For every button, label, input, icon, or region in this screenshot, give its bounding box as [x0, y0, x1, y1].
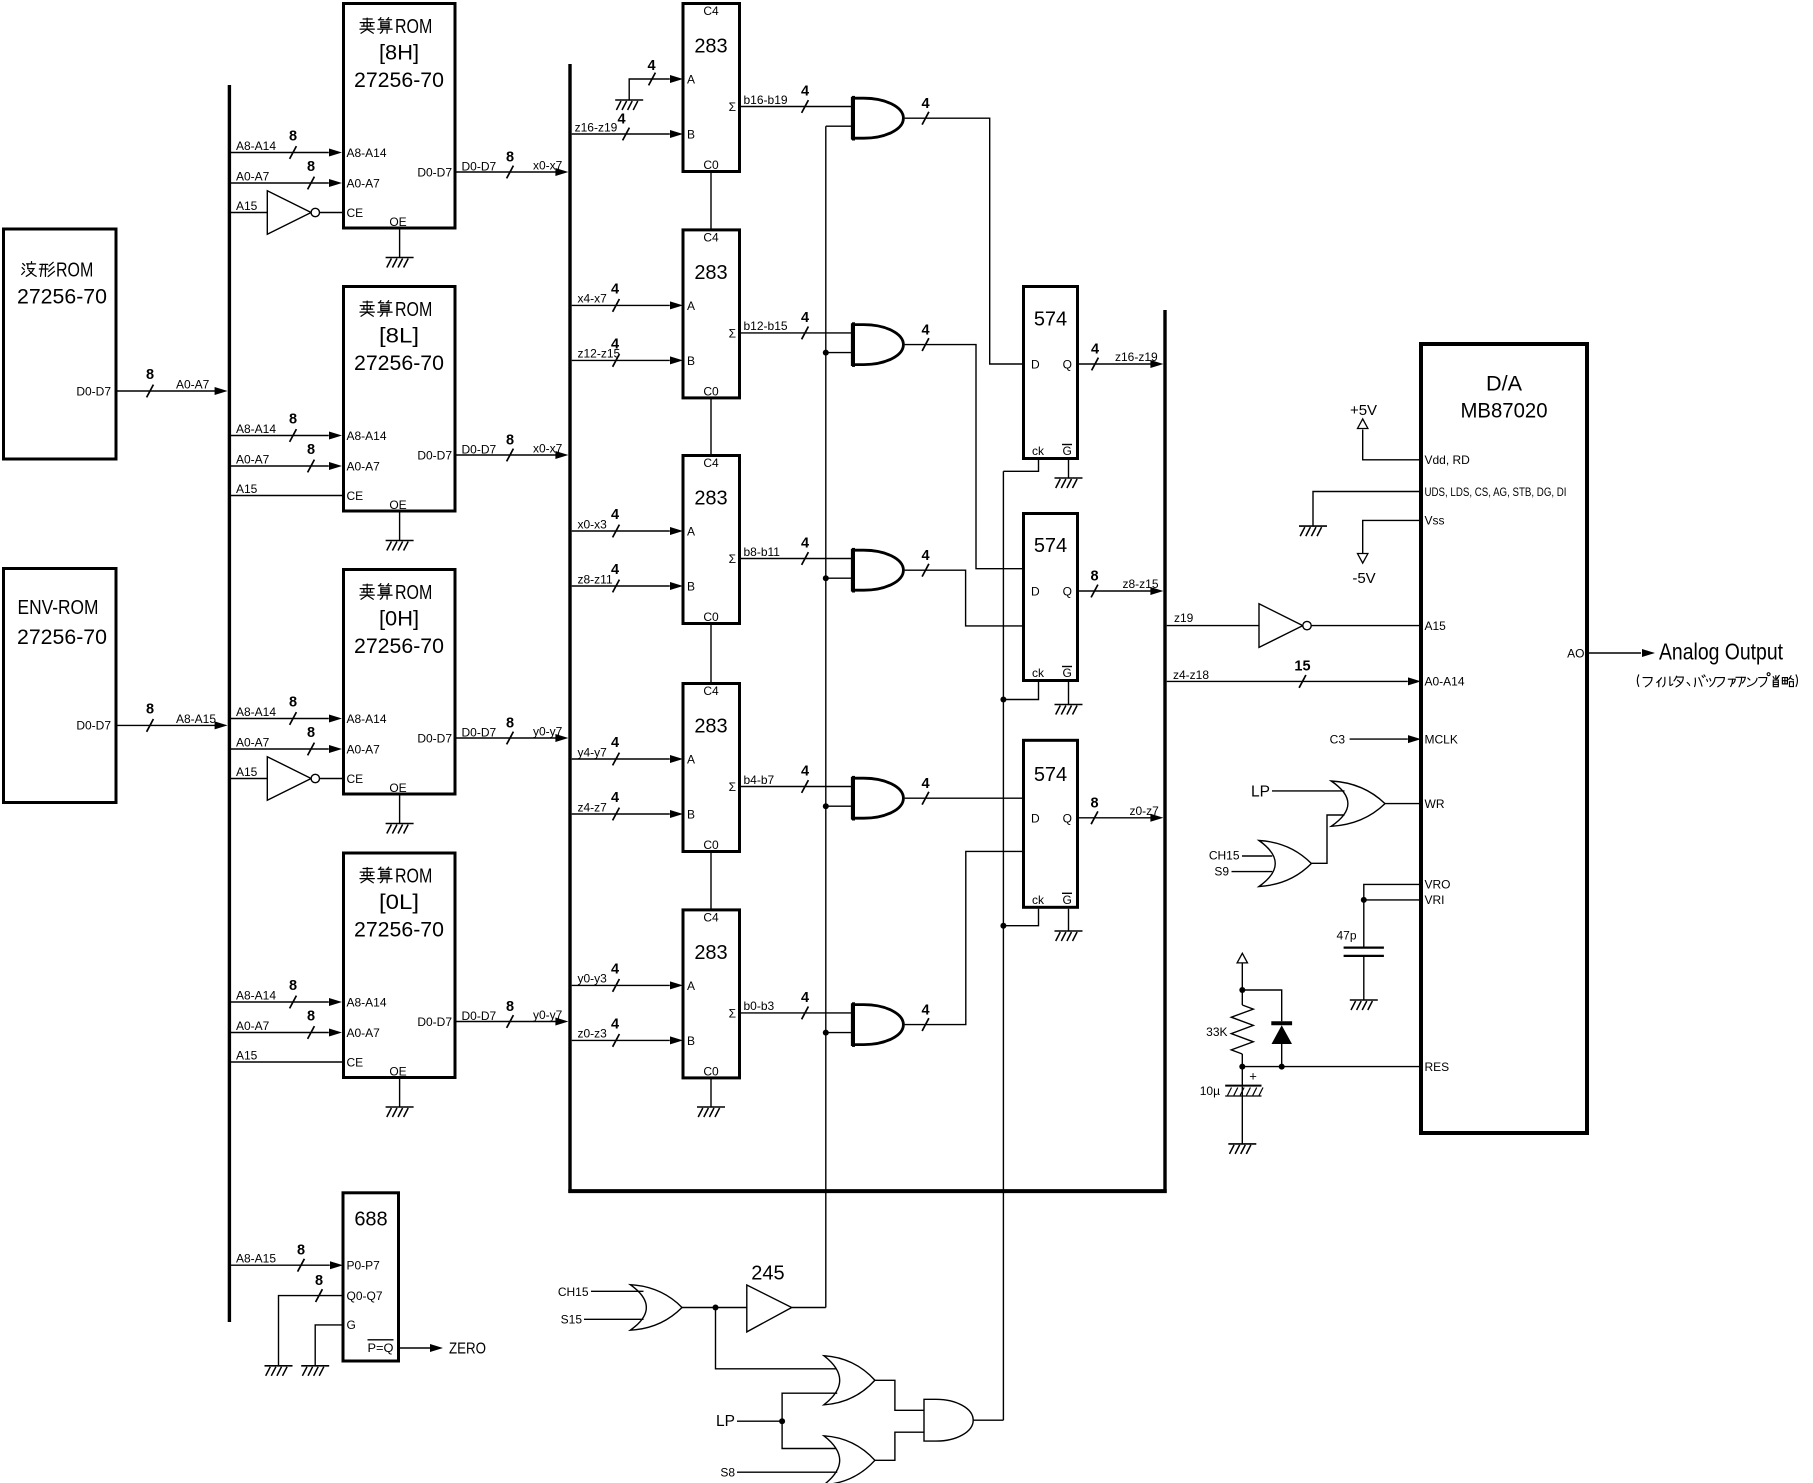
svg-text:8: 8: [307, 725, 315, 741]
resistor R1 33K: [1241, 990, 1243, 1005]
svg-text:4: 4: [801, 84, 809, 100]
svg-text:8: 8: [307, 1009, 315, 1025]
svg-text:z4-z18: z4-z18: [1173, 668, 1209, 682]
wire A8-A15 from bus B1 to U32 P0-P7: [231, 1264, 330, 1266]
ROM U5 multiplier ROM [0H] 27256-70 box: [344, 570, 456, 795]
svg-text:C4: C4: [703, 4, 719, 18]
svg-text:8: 8: [506, 716, 514, 732]
svg-text:A8-A14: A8-A14: [236, 989, 276, 1003]
svg-text:D0-D7: D0-D7: [462, 726, 497, 740]
svg-text:27256-70: 27256-70: [354, 352, 444, 375]
svg-text:283: 283: [694, 716, 727, 738]
D/A converter U30 MB87020 box: [1421, 344, 1587, 1133]
ground at U3 OE: [386, 258, 414, 268]
svg-text:D: D: [1031, 585, 1040, 599]
wire carry C0 of U12 to C4 of U13: [710, 398, 712, 455]
svg-text:B: B: [687, 354, 695, 368]
ground at U32 G: [301, 1366, 329, 1376]
wire supply to R1/D1 node: [1241, 963, 1243, 990]
svg-text:MB87020: MB87020: [1461, 400, 1548, 423]
svg-text:S9: S9: [1214, 864, 1229, 878]
inverter on A15 to U3 CE: [267, 191, 319, 235]
ground at U4 OE: [386, 541, 414, 551]
svg-text:y0-y7: y0-y7: [533, 1008, 563, 1022]
OR gate G10: [824, 1356, 875, 1405]
junction on gating line at G5: [823, 1030, 829, 1036]
wire inverter output to CE: [320, 212, 344, 214]
svg-text:A8-A14: A8-A14: [347, 995, 387, 1009]
svg-text:D0-D7: D0-D7: [76, 719, 111, 733]
junction VRO/VRI node: [1361, 897, 1367, 903]
wire S8 to G11 lower input: [737, 1471, 837, 1473]
wire U21 Q output to bus B3 (net z16-z19): [1077, 363, 1158, 365]
wire G7 output to U30 WR: [1385, 803, 1421, 805]
wire U3 D0-D7 to bus B2 (net x0-x7): [455, 171, 563, 173]
svg-text:8: 8: [289, 412, 297, 428]
svg-text:Vdd, RD: Vdd, RD: [1425, 453, 1471, 467]
svg-text:27256-70: 27256-70: [354, 635, 444, 658]
wire node to capacitor C2: [1363, 900, 1365, 947]
svg-text:4: 4: [611, 961, 619, 977]
svg-text:z4-z7: z4-z7: [578, 800, 608, 814]
ROM U4 multiplier ROM [8L] 27256-70 box: [344, 287, 456, 512]
wire G9 output down to G10: [716, 1308, 838, 1369]
U6 title 乗算ROM: [360, 868, 374, 883]
svg-text:z0-z7: z0-z7: [1130, 804, 1160, 818]
svg-text:ZERO: ZERO: [449, 1340, 486, 1357]
wire U23 Q output to bus B3 (net z0-z7): [1077, 817, 1158, 819]
U5 title 乗算ROM: [360, 584, 374, 599]
AND gate G1 (mute gate): [852, 96, 903, 141]
svg-text:C4: C4: [703, 456, 719, 470]
svg-text:4: 4: [611, 507, 619, 523]
svg-text:y0-y7: y0-y7: [533, 725, 563, 739]
bus B3 (z result bus) vertical: [1163, 310, 1166, 1193]
svg-text:y4-y7: y4-y7: [578, 745, 608, 759]
latch U22 74x574 box: [1024, 514, 1078, 681]
svg-text:[0L]: [0L]: [379, 891, 419, 914]
svg-text:8: 8: [289, 695, 297, 711]
OR gate G7 (LP + chord) driving WR: [1331, 781, 1385, 826]
svg-text:OE: OE: [389, 498, 406, 512]
svg-text:C3: C3: [1330, 732, 1346, 746]
svg-text:27256-70: 27256-70: [17, 626, 107, 649]
wire lower input of G3 from gating line: [826, 577, 853, 579]
svg-text:4: 4: [617, 112, 625, 128]
svg-text:A15: A15: [236, 199, 258, 213]
wire RES node to U30 RES: [1242, 1066, 1421, 1068]
wire U30 AO to analog output: [1587, 652, 1641, 654]
svg-text:ck: ck: [1032, 444, 1045, 458]
wire lower input of G2 from gating line: [826, 352, 853, 354]
svg-text:P0-P7: P0-P7: [347, 1259, 381, 1273]
svg-text:283: 283: [694, 488, 727, 510]
junction clock line to U22 ck: [1000, 697, 1006, 703]
svg-text:4: 4: [801, 764, 809, 780]
ground at U5 OE: [386, 824, 414, 834]
svg-text:A15: A15: [236, 1049, 258, 1063]
svg-text:VRO: VRO: [1425, 878, 1451, 892]
svg-text:S15: S15: [561, 1313, 583, 1327]
svg-text:Σ: Σ: [729, 780, 736, 794]
svg-text:Σ: Σ: [729, 552, 736, 566]
wire A15 bus B1 to U4 CE: [231, 495, 344, 497]
ground at U32 Q0-Q7: [265, 1366, 293, 1376]
ground at U15 C0: [697, 1107, 725, 1117]
svg-text:ROM: ROM: [395, 581, 432, 604]
wire A0-A7 bus B1 to U4: [231, 465, 329, 467]
svg-text:D0-D7: D0-D7: [417, 1015, 452, 1029]
wire U23 G-bar to ground: [1068, 909, 1070, 931]
svg-text:27256-70: 27256-70: [354, 69, 444, 92]
wire G8 output to G7 lower input: [1311, 815, 1344, 863]
svg-text:G: G: [1063, 444, 1072, 458]
ground at U21 G-bar: [1055, 478, 1083, 488]
svg-text:574: 574: [1034, 309, 1067, 331]
svg-text:4: 4: [611, 1016, 619, 1032]
svg-text:OE: OE: [389, 1065, 406, 1079]
ground at UDS..DI: [1299, 526, 1327, 536]
svg-text:CE: CE: [347, 489, 364, 503]
bus B2 (x/y data bus) vertical: [568, 64, 571, 1193]
adder U11 74x283 box: [683, 4, 740, 172]
svg-text:8: 8: [146, 702, 154, 718]
wire U6 OE to ground: [399, 1079, 401, 1107]
svg-text:C4: C4: [703, 230, 719, 244]
wire U32 G to ground: [315, 1325, 343, 1366]
wire U32 Q0-Q7 to ground: [279, 1296, 344, 1366]
diode D1 (reset clamp): [1271, 1023, 1292, 1044]
svg-text:B: B: [687, 1034, 695, 1048]
svg-text:D: D: [1031, 358, 1040, 372]
U4 title 乗算ROM: [360, 301, 374, 316]
wire S9 to G8 lower input: [1232, 871, 1273, 873]
wire net z4-z18 from bus B3 to U30 A0-A14: [1167, 680, 1408, 682]
wire U1 D0-D7 to bus B1 (net A0-A7): [116, 390, 222, 392]
U3 title 乗算ROM: [360, 18, 374, 33]
wire gating line from buffer 245 up to AND gates: [825, 126, 827, 1307]
junction clock line to U23 ck: [1000, 923, 1006, 929]
svg-text:8: 8: [307, 442, 315, 458]
svg-text:[0H]: [0H]: [379, 607, 419, 630]
svg-text:[8L]: [8L]: [379, 324, 419, 347]
svg-text:8: 8: [506, 433, 514, 449]
svg-text:A0-A7: A0-A7: [236, 1019, 270, 1033]
svg-text:8: 8: [297, 1243, 305, 1259]
svg-text:A0-A7: A0-A7: [347, 742, 381, 756]
svg-text:15: 15: [1294, 658, 1310, 674]
svg-text:4: 4: [611, 735, 619, 751]
bus B1 (address bus A0-A15) vertical: [228, 85, 231, 1322]
wire carry C0 of U13 to C4 of U14: [710, 624, 712, 684]
wire U5 D0-D7 to bus B2 (net y0-y7): [455, 737, 563, 739]
svg-text:D0-D7: D0-D7: [462, 1009, 497, 1023]
svg-text:A8-A14: A8-A14: [236, 705, 276, 719]
svg-text:10µ: 10µ: [1200, 1084, 1220, 1098]
svg-text:4: 4: [801, 536, 809, 552]
svg-text:LP: LP: [1251, 783, 1270, 800]
svg-text:8: 8: [307, 159, 315, 175]
wire A8-A14 bus B1 to U4: [231, 435, 329, 437]
svg-text:4: 4: [801, 990, 809, 1006]
power symbol -5V: [1358, 554, 1368, 564]
svg-text:G: G: [1063, 893, 1072, 907]
wire CH15 to G9 upper input: [591, 1290, 644, 1292]
svg-text:A15: A15: [236, 482, 258, 496]
svg-text:A15: A15: [236, 765, 258, 779]
svg-text:A0-A7: A0-A7: [236, 170, 270, 184]
svg-text:G: G: [347, 1318, 356, 1332]
svg-text:27256-70: 27256-70: [354, 918, 444, 941]
svg-text:x0-x7: x0-x7: [533, 442, 563, 456]
svg-text:CH15: CH15: [1209, 849, 1240, 863]
buffer U31 74x245: [747, 1285, 792, 1332]
svg-text:4: 4: [1091, 342, 1099, 358]
junction G9 output branch: [713, 1305, 719, 1311]
svg-text:8: 8: [315, 1273, 323, 1289]
svg-text:A0-A7: A0-A7: [347, 176, 381, 190]
svg-text:A8-A14: A8-A14: [236, 422, 276, 436]
wire U11 sum output (net b16-b19) to AND gate: [740, 106, 853, 108]
adder U14 74x283 box: [683, 684, 740, 852]
wire G10 output to G6 upper input: [875, 1380, 924, 1410]
svg-text:VRI: VRI: [1425, 893, 1445, 907]
svg-text:Σ: Σ: [729, 326, 736, 340]
svg-text:C0: C0: [703, 1064, 719, 1078]
svg-text:574: 574: [1034, 764, 1067, 786]
wire net C3 to U30 MCLK: [1350, 738, 1408, 740]
svg-text:A0-A7: A0-A7: [236, 453, 270, 467]
svg-text:Analog Output: Analog Output: [1659, 638, 1784, 664]
wire U12 sum output (net b12-b15) to AND gate: [740, 332, 853, 334]
svg-text:A8-A14: A8-A14: [236, 139, 276, 153]
svg-text:283: 283: [694, 262, 727, 284]
capacitor C2 47p: [1344, 946, 1384, 948]
wire U6 D0-D7 to bus B2 (net y0-y7): [455, 1021, 563, 1023]
svg-text:CE: CE: [347, 772, 364, 786]
svg-text:z16-z19: z16-z19: [1115, 350, 1158, 364]
wire G6 output to clock line: [973, 1419, 1003, 1421]
OR gate G8 (CH15 + S9): [1259, 841, 1311, 887]
svg-text:283: 283: [694, 942, 727, 964]
wire G4 output to U23 D upper nibble: [905, 797, 1022, 799]
svg-text:AO: AO: [1567, 646, 1584, 660]
svg-text:ENV-ROM: ENV-ROM: [18, 596, 99, 619]
svg-text:Σ: Σ: [729, 100, 736, 114]
wire U30 Vss to -5V: [1363, 520, 1421, 553]
wire U13 sum output (net b8-b11) to AND gate: [740, 558, 853, 560]
wire U23 ck to clock line: [1003, 909, 1038, 926]
svg-text:A0-A7: A0-A7: [236, 736, 270, 750]
junction R1/D1 top: [1239, 987, 1245, 993]
wire A8-A14 bus B1 to U3: [231, 152, 329, 154]
svg-text:8: 8: [506, 999, 514, 1015]
svg-text:A0-A14: A0-A14: [1425, 675, 1465, 689]
svg-text:G: G: [1063, 666, 1072, 680]
wire LP to G11 upper input: [782, 1421, 837, 1448]
wire U22 Q output to bus B3 (net z8-z15): [1077, 590, 1158, 592]
wire U31 output up to AND gating line: [792, 1307, 826, 1309]
bus bottom rail joining B2 and B3: [568, 1189, 1166, 1193]
wire S15 to G9 lower input: [584, 1318, 644, 1320]
ROM U6 multiplier ROM [0L] 27256-70 box: [344, 853, 456, 1078]
wire U4 OE to ground: [399, 513, 401, 541]
svg-text:CE: CE: [347, 206, 364, 220]
svg-text:D0-D7: D0-D7: [417, 731, 452, 745]
junction R1 bottom: [1239, 1064, 1245, 1070]
ROM U1 waveform ROM (波形ROM 27256-70) box: [4, 229, 117, 459]
wire U21 G-bar to ground: [1068, 460, 1070, 478]
wire inverter output to U30 A15: [1312, 625, 1422, 627]
wire A15 bus B1 to U5 CE: [231, 778, 267, 780]
svg-text:CH15: CH15: [558, 1285, 589, 1299]
wire B input U11 from bus B3 loop (net z16-z19): [572, 133, 670, 135]
wire U15 sum output (net b0-b3) to AND gate: [740, 1012, 853, 1014]
svg-text:4: 4: [921, 1002, 929, 1018]
svg-text:CE: CE: [347, 1055, 364, 1069]
wire C2 to ground: [1363, 957, 1365, 1000]
svg-text:C4: C4: [703, 910, 719, 924]
svg-text:8: 8: [289, 978, 297, 994]
AND gate G5 (mute gate): [852, 1002, 903, 1047]
wire G9 output to buffer 245: [682, 1307, 748, 1309]
wire A input U13 from bus B2 (net x0-x3): [572, 530, 670, 532]
svg-text:4: 4: [921, 96, 929, 112]
AND gate G3 (mute gate): [852, 548, 903, 593]
wire carry C0 of U15 to ground: [710, 1078, 712, 1107]
svg-text:A: A: [687, 73, 695, 87]
svg-text:8: 8: [1090, 795, 1098, 811]
svg-text:B: B: [687, 808, 695, 822]
wire lower input of G5 from gating line: [826, 1032, 853, 1034]
svg-text:C4: C4: [703, 684, 719, 698]
adder U13 74x283 box: [683, 456, 740, 624]
svg-text:LP: LP: [716, 1413, 735, 1430]
svg-text:C0: C0: [703, 838, 719, 852]
ROM U3 multiplier ROM [8H] 27256-70 box: [344, 4, 456, 229]
wire U21 ck to clock line: [1003, 460, 1038, 471]
wire U2 D0-D7 to bus B1 (net A8-A15): [116, 724, 222, 726]
svg-text:x4-x7: x4-x7: [578, 292, 608, 306]
junction on gating line at G2: [823, 350, 829, 356]
wire A0-A7 bus B1 to U3: [231, 182, 329, 184]
svg-text:8: 8: [1090, 569, 1098, 585]
wire A input U15 from bus B2 (net y0-y3): [572, 984, 670, 986]
svg-text:Vss: Vss: [1425, 514, 1445, 528]
svg-text:WR: WR: [1425, 797, 1445, 811]
adder U15 74x283 box: [683, 910, 740, 1078]
wire G5 output to U23 D lower nibble: [905, 851, 1022, 1024]
wire U14 sum output (net b4-b7) to AND gate: [740, 786, 853, 788]
svg-text:ck: ck: [1032, 666, 1045, 680]
svg-text:283: 283: [694, 36, 727, 58]
wire U30 UDS..DI to ground: [1313, 492, 1421, 527]
wire U5 OE to ground: [399, 796, 401, 824]
svg-text:A: A: [687, 299, 695, 313]
wire B input U14 (net z4-z7): [572, 813, 670, 815]
svg-text:UDS, LDS, CS, AG, STB, DG, DI: UDS, LDS, CS, AG, STB, DG, DI: [1425, 485, 1567, 499]
svg-text:z19: z19: [1174, 611, 1194, 625]
wire A8-A14 bus B1 to U6: [231, 1001, 329, 1003]
junction on gating line at G3: [823, 575, 829, 581]
wire A0-A7 bus B1 to U6: [231, 1032, 329, 1034]
wire G3 output to U22 D lower nibble: [905, 570, 1022, 626]
svg-text:27256-70: 27256-70: [17, 286, 107, 309]
svg-text:MCLK: MCLK: [1425, 732, 1458, 746]
wire G1 output to U21 D (net z16-z19 pre-latch): [905, 118, 1022, 364]
svg-text:b8-b11: b8-b11: [744, 545, 781, 559]
wire LP to G10 lower input: [782, 1393, 837, 1421]
svg-text:ROM: ROM: [395, 865, 432, 888]
junction on gating line at G4: [823, 803, 829, 809]
svg-text:b4-b7: b4-b7: [744, 773, 775, 787]
svg-text:z12-z15: z12-z15: [578, 347, 621, 361]
svg-text:D0-D7: D0-D7: [417, 165, 452, 179]
svg-text:4: 4: [647, 58, 655, 74]
AND gate G4 (mute gate): [852, 776, 903, 821]
svg-text:b0-b3: b0-b3: [744, 999, 775, 1013]
wire G11 output to G6 lower input: [875, 1432, 924, 1460]
comparator U32 74x688 box: [343, 1193, 399, 1361]
svg-text:4: 4: [921, 776, 929, 792]
svg-text:Σ: Σ: [729, 1006, 736, 1020]
svg-text:688: 688: [354, 1208, 387, 1230]
wire carry C0 of U14 to C4 of U15: [710, 852, 712, 910]
AND gate G2 (mute gate): [852, 322, 903, 367]
junction D1 bottom: [1279, 1064, 1285, 1070]
wire U4 D0-D7 to bus B2 (net x0-x7): [455, 454, 563, 456]
svg-text:P=Q: P=Q: [368, 1341, 394, 1355]
svg-text:OE: OE: [389, 215, 406, 229]
wire A15 bus B1 to U3 CE: [231, 212, 267, 214]
wire C3 to ground: [1241, 1087, 1243, 1144]
svg-text:+: +: [1249, 1069, 1257, 1084]
svg-text:4: 4: [611, 281, 619, 297]
svg-text:C0: C0: [703, 158, 719, 172]
svg-text:z8-z15: z8-z15: [1123, 577, 1159, 591]
wire U32 P=Q output (net ZERO): [399, 1347, 430, 1349]
inverter z19 to U30 A15: [1259, 604, 1311, 648]
ground at U22 G-bar: [1055, 705, 1083, 715]
wire B input U12 (net z12-z15): [572, 359, 670, 361]
svg-text:574: 574: [1034, 535, 1067, 557]
svg-text:ROM: ROM: [395, 298, 432, 321]
AND gate G6 (clock combine): [924, 1399, 973, 1441]
svg-text:RES: RES: [1425, 1060, 1450, 1074]
svg-text:D: D: [1031, 811, 1040, 825]
svg-text:A0-A7: A0-A7: [347, 459, 381, 473]
latch U23 74x574 box: [1024, 740, 1078, 907]
svg-text:z8-z11: z8-z11: [578, 572, 613, 586]
svg-text:A0-A7: A0-A7: [347, 1026, 381, 1040]
svg-text:245: 245: [751, 1262, 784, 1284]
svg-text:z0-z3: z0-z3: [578, 1027, 608, 1041]
svg-text:A: A: [687, 753, 695, 767]
inverter on A15 to U5 CE: [267, 757, 319, 801]
svg-text:A0-A7: A0-A7: [176, 378, 210, 392]
ROM U2 envelope ROM (ENV-ROM 27256-70) box: [4, 569, 117, 803]
svg-text:A8-A15: A8-A15: [236, 1252, 276, 1266]
wire inverter output to CE: [320, 778, 344, 780]
svg-text:[8H]: [8H]: [379, 41, 419, 64]
svg-text:S8: S8: [720, 1465, 735, 1479]
svg-text:-5V: -5V: [1352, 570, 1375, 587]
svg-text:A: A: [687, 979, 695, 993]
wire filter node to U30 VRI: [1364, 899, 1421, 901]
svg-text:47p: 47p: [1336, 928, 1356, 942]
wire lower input of G4 from gating line: [826, 805, 853, 807]
OR gate G9 (CH15 + S15): [630, 1285, 682, 1331]
